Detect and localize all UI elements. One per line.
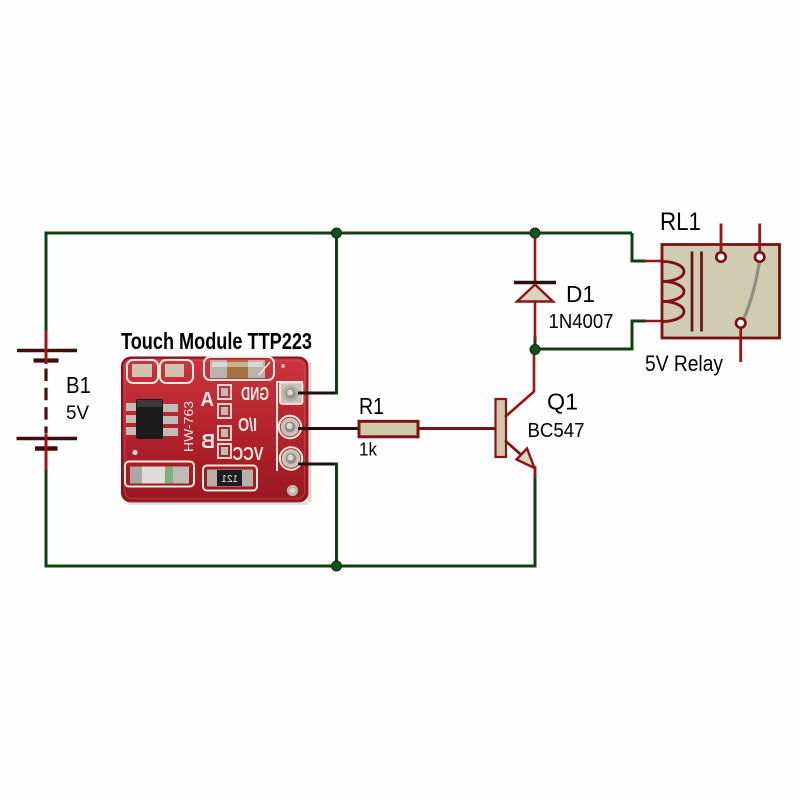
- junction dot D1 top: [530, 228, 540, 238]
- capacitor C1: [210, 360, 265, 378]
- body box: [662, 245, 780, 339]
- svg-text:R1: R1: [359, 393, 384, 419]
- silkscreen outline capacitor: [204, 357, 274, 380]
- triangle: [517, 285, 553, 302]
- pad boxes column: [218, 385, 231, 458]
- pin stub cathode top: [534, 235, 537, 281]
- wire: module VCC to bottom rail: [298, 463, 337, 567]
- relay RL1: [662, 224, 780, 363]
- silkscreen outline LED: [125, 462, 194, 487]
- wire: relay coil top corner: [632, 233, 646, 261]
- plate long top: [17, 349, 77, 352]
- svg-text:5V Relay: 5V Relay: [645, 351, 723, 376]
- svg-text:I/O: I/O: [238, 415, 257, 435]
- plate short bottom: [35, 446, 58, 450]
- junction dot top rail: [332, 228, 342, 238]
- svg-text:B: B: [201, 431, 215, 453]
- svg-text:121: 121: [221, 474, 238, 485]
- pin stub top: [45, 330, 48, 364]
- hole pad GND: [280, 383, 303, 405]
- pcb tiny marks: [132, 450, 137, 455]
- emitter arrow: [517, 449, 535, 469]
- emitter vertical: [534, 466, 537, 478]
- pin: R1 to Q1 base: [418, 427, 497, 430]
- wire: module GND to top rail: [298, 233, 337, 395]
- svg-text:RL1: RL1: [660, 208, 701, 236]
- diode D1: [514, 235, 556, 340]
- dashed link: [44, 369, 47, 434]
- smd pad 1: [132, 364, 152, 377]
- plate short top: [34, 358, 59, 362]
- plate long bottom: [17, 437, 78, 440]
- cathode bar: [514, 281, 556, 284]
- pin: relay coil bottom stub: [644, 320, 664, 323]
- junction dot collector node: [530, 345, 540, 355]
- svg-text:Touch Module TTP223: Touch Module TTP223: [121, 328, 312, 354]
- svg-text:B1: B1: [66, 372, 91, 398]
- touch module TTP223 photo: [122, 357, 312, 505]
- svg-text:1N4007: 1N4007: [549, 310, 614, 333]
- collector diagonal: [505, 392, 534, 418]
- battery B1: [17, 330, 78, 470]
- collector vertical: [533, 351, 536, 392]
- pad area silkscreen lines: [277, 382, 303, 471]
- resistor R1: [359, 421, 418, 437]
- smd pad 2: [165, 364, 184, 377]
- contact NC pin: [720, 224, 723, 253]
- svg-text:1k: 1k: [359, 440, 378, 460]
- hole pad I/O: [279, 416, 301, 438]
- junction dot bottom rail: [332, 561, 342, 571]
- IC U2 TTP223 chip: [126, 399, 178, 439]
- svg-text:D1: D1: [566, 281, 595, 307]
- svg-text:5V: 5V: [66, 403, 89, 424]
- wire: D1 lower link: [534, 336, 537, 350]
- pin stub bottom: [45, 434, 48, 470]
- core lines: [691, 252, 694, 332]
- common pin: [736, 318, 745, 327]
- pin stub anode bottom: [534, 302, 537, 340]
- pin: relay coil top stub: [644, 260, 664, 263]
- wire: bottom rail: [46, 469, 535, 566]
- hole pad VCC: [280, 447, 302, 469]
- svg-text:GND: GND: [241, 384, 269, 404]
- switch arm: [744, 263, 759, 319]
- pcb edge shadow: [308, 362, 312, 502]
- emitter diagonal: [505, 441, 527, 461]
- contact NO pin: [758, 224, 761, 253]
- wire: top rail: [46, 233, 632, 331]
- LED D2: [130, 467, 189, 484]
- svg-text:Q1: Q1: [547, 389, 578, 415]
- coil: [663, 262, 684, 322]
- svg-text:HW-763: HW-763: [182, 401, 196, 452]
- svg-text:A: A: [201, 389, 215, 411]
- resistor 121 chip: [207, 470, 253, 487]
- transistor Q1: [496, 351, 536, 478]
- silkscreen outline top-left pads: [127, 360, 158, 383]
- silkscreen outline R-121: [203, 466, 257, 491]
- hole pad spare: [287, 485, 298, 496]
- svg-text:VCC: VCC: [233, 444, 264, 464]
- base bar: [496, 399, 507, 457]
- wire: collector to relay return: [535, 321, 646, 349]
- svg-text:BC547: BC547: [528, 419, 585, 442]
- wire: module I/O to R1: [298, 427, 360, 430]
